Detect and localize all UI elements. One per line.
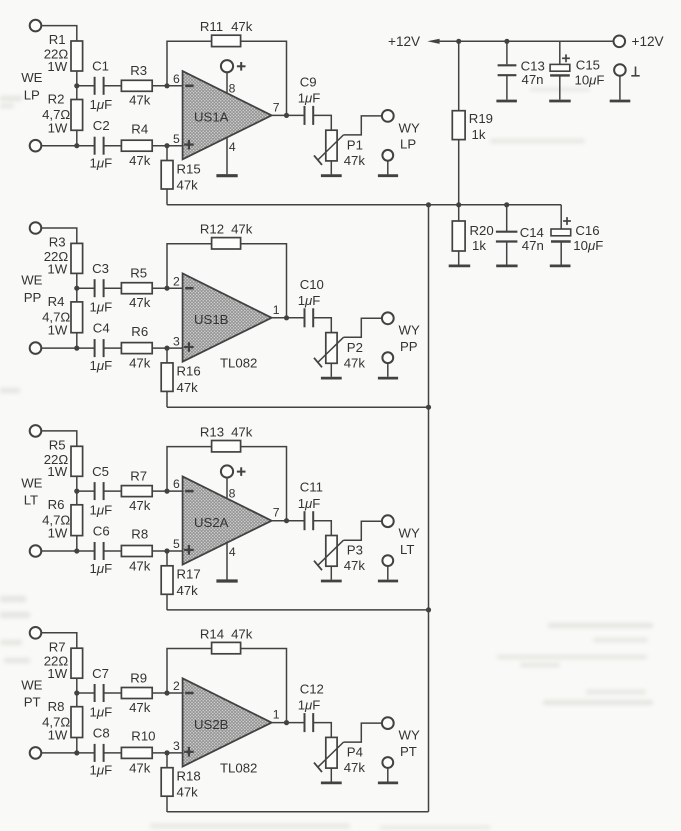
svg-text:PT: PT [400,744,417,759]
svg-text:WE: WE [21,677,42,692]
svg-text:5: 5 [173,132,180,146]
svg-text:1k: 1k [472,238,486,253]
svg-text:7: 7 [273,506,280,520]
svg-text:8: 8 [229,487,236,501]
svg-text:C11: C11 [300,480,323,495]
svg-text:47k: 47k [231,424,253,439]
svg-text:1μF: 1μF [298,698,321,713]
svg-text:1W: 1W [48,120,68,135]
svg-text:2: 2 [173,274,180,288]
svg-text:1μF: 1μF [298,91,321,106]
svg-text:C15: C15 [576,58,600,73]
svg-text:1W: 1W [47,261,67,276]
svg-text:1μF: 1μF [90,503,113,518]
svg-text:6: 6 [173,477,180,491]
svg-text:WY: WY [399,323,420,338]
svg-text:10μF: 10μF [573,238,603,253]
svg-text:R13: R13 [200,424,224,439]
svg-text:47k: 47k [129,760,151,775]
svg-text:47k: 47k [129,93,151,108]
svg-text:4: 4 [229,140,236,154]
svg-text:7: 7 [273,100,280,114]
svg-text:C9: C9 [300,74,317,89]
svg-text:R12: R12 [200,222,224,237]
svg-text:47k: 47k [129,559,151,574]
svg-text:LP: LP [400,137,416,152]
svg-text:R6: R6 [48,497,65,512]
svg-text:R2: R2 [48,92,65,107]
svg-text:WE: WE [21,70,42,85]
svg-text:8: 8 [229,81,236,95]
svg-text:R18: R18 [177,769,201,784]
svg-text:47k: 47k [344,760,366,775]
svg-text:1μF: 1μF [90,156,113,171]
svg-text:R5: R5 [49,438,66,453]
svg-text:US1B: US1B [194,312,229,327]
svg-text:C12: C12 [300,682,324,697]
svg-text:R8: R8 [131,527,148,542]
svg-text:P4: P4 [347,745,363,760]
svg-text:C2: C2 [93,118,110,133]
svg-text:1: 1 [273,303,280,317]
svg-text:+12V: +12V [388,34,420,49]
svg-text:47k: 47k [177,583,199,598]
svg-text:C7: C7 [92,666,109,681]
svg-text:R7: R7 [49,639,66,654]
svg-text:47k: 47k [231,19,253,34]
svg-text:1μF: 1μF [90,97,113,112]
svg-text:LT: LT [24,493,38,508]
svg-text:47k: 47k [129,153,151,168]
svg-text:C10: C10 [300,277,324,292]
svg-text:TL082: TL082 [220,761,257,776]
svg-text:C1: C1 [92,59,109,74]
svg-text:R16: R16 [177,364,201,379]
svg-text:TL082: TL082 [220,356,257,371]
svg-text:47k: 47k [129,356,151,371]
svg-text:1μF: 1μF [298,293,321,308]
svg-text:P2: P2 [347,340,363,355]
svg-text:WE: WE [21,273,42,288]
svg-text:47k: 47k [177,178,199,193]
svg-text:R20: R20 [470,223,494,238]
svg-text:47k: 47k [344,153,366,168]
svg-text:US2B: US2B [194,717,229,732]
svg-text:1W: 1W [47,59,67,74]
svg-text:R7: R7 [130,468,147,483]
svg-text:47k: 47k [129,498,151,513]
svg-text:PT: PT [24,695,41,710]
svg-text:WY: WY [399,526,420,541]
svg-text:R3: R3 [130,63,147,78]
svg-text:R19: R19 [469,111,493,126]
svg-text:1μF: 1μF [90,358,113,373]
svg-text:1W: 1W [48,728,68,743]
svg-text:PP: PP [400,339,418,354]
svg-text:47k: 47k [129,700,151,715]
svg-text:R10: R10 [131,729,155,744]
svg-text:WY: WY [399,728,420,743]
svg-text:P1: P1 [347,137,363,152]
svg-text:R11: R11 [200,19,223,34]
svg-text:R4: R4 [48,294,65,309]
svg-text:R4: R4 [131,121,148,136]
svg-text:US1A: US1A [194,110,229,125]
svg-text:C4: C4 [93,321,110,336]
svg-text:C8: C8 [93,725,110,740]
svg-text:1k: 1k [472,127,486,142]
svg-text:47k: 47k [344,558,366,573]
svg-text:1W: 1W [47,666,67,681]
svg-text:47n: 47n [522,238,544,253]
svg-text:47k: 47k [231,222,253,237]
svg-text:WE: WE [21,476,42,491]
svg-text:C5: C5 [92,464,109,479]
svg-text:1μF: 1μF [90,763,113,778]
svg-text:1W: 1W [48,526,68,541]
svg-text:R5: R5 [130,266,147,281]
svg-text:47k: 47k [177,380,199,395]
svg-text:1W: 1W [47,464,67,479]
svg-text:1μF: 1μF [298,496,321,511]
svg-text:C16: C16 [575,223,599,238]
svg-text:R3: R3 [49,235,66,250]
svg-text:2: 2 [173,679,180,693]
svg-text:P3: P3 [347,543,363,558]
svg-text:R8: R8 [48,699,65,714]
svg-text:WY: WY [399,120,420,135]
svg-text:+12V: +12V [632,34,664,49]
svg-text:3: 3 [173,739,180,753]
svg-text:LP: LP [24,87,40,102]
svg-text:5: 5 [173,537,180,551]
svg-text:47n: 47n [522,72,544,87]
svg-text:1μF: 1μF [90,704,113,719]
svg-text:1: 1 [273,708,280,722]
svg-text:3: 3 [173,334,180,348]
svg-text:R6: R6 [131,324,148,339]
svg-text:R15: R15 [177,161,201,176]
svg-text:1μF: 1μF [90,300,113,315]
svg-text:47k: 47k [129,295,151,310]
svg-text:47k: 47k [231,626,253,641]
svg-text:R17: R17 [177,567,201,582]
svg-text:R9: R9 [130,670,147,685]
svg-text:R1: R1 [49,32,66,47]
svg-text:47k: 47k [344,355,366,370]
svg-text:1μF: 1μF [90,561,113,576]
svg-text:6: 6 [173,72,180,86]
svg-text:C6: C6 [93,523,110,538]
svg-text:47k: 47k [177,785,199,800]
svg-text:R14: R14 [200,626,224,641]
svg-text:LT: LT [400,542,414,557]
svg-text:1W: 1W [48,323,68,338]
svg-text:US2A: US2A [194,515,229,530]
svg-text:10μF: 10μF [575,72,605,87]
svg-text:C3: C3 [92,261,109,276]
svg-text:PP: PP [24,290,42,305]
svg-text:4: 4 [229,545,236,559]
